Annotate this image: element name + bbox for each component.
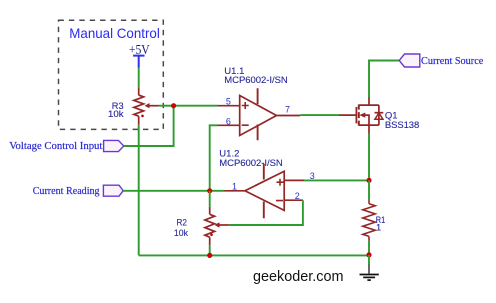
svg-text:MCP6002-I/SN: MCP6002-I/SN: [224, 75, 288, 86]
svg-text:geekoder.com: geekoder.com: [253, 269, 344, 285]
manual control box: [59, 20, 164, 129]
svg-text:2: 2: [295, 191, 300, 201]
wire node A to pin1: [210, 190, 225, 192]
svg-text:1: 1: [376, 222, 381, 232]
node ground junction: [366, 252, 371, 257]
svg-text:Voltage Control Input: Voltage Control Input: [9, 140, 102, 152]
wire pin2 jog down to R2 wiper: [229, 200, 303, 225]
power +5V: [129, 43, 150, 67]
node B junction: [366, 178, 371, 183]
svg-text:1: 1: [232, 181, 237, 191]
wire pin7 to gate: [300, 114, 339, 116]
wire bottom rail: [139, 254, 369, 256]
svg-text:Current Reading: Current Reading: [33, 185, 100, 197]
svg-text:R2: R2: [177, 217, 188, 227]
wire pin6 L to node A: [210, 125, 218, 191]
resistor R1: [363, 200, 385, 241]
svg-text:Current Source: Current Source: [421, 55, 483, 67]
wire R1 bottom to ground node: [368, 241, 370, 255]
wire node A to R2: [209, 191, 211, 207]
resistor R3 (trimmer 10k): [108, 88, 174, 125]
wire drain up to current source: [369, 61, 399, 98]
op-amp U1.1: [218, 66, 301, 140]
node wiper junction: [171, 103, 176, 108]
svg-text:Manual Control: Manual Control: [69, 25, 160, 41]
flag Current Source: [399, 54, 483, 67]
wire R2 bottom to rail: [209, 245, 211, 255]
wire Current Reading to node A: [123, 190, 210, 192]
svg-text:MCP6002-I/SN: MCP6002-I/SN: [219, 158, 283, 169]
node R2 bottom junction: [207, 253, 212, 258]
transistor Q1 BSS138: [339, 97, 419, 134]
wire VCI to wiper junction: [124, 106, 174, 146]
wire +5V to R3: [138, 68, 140, 89]
wire source down to node B: [368, 134, 370, 181]
node A junction: [207, 188, 212, 193]
flag Voltage Control Input: [9, 140, 124, 152]
wire wiper junction to pin5: [174, 105, 218, 107]
wire pin3 to source node: [304, 179, 369, 181]
resistor R2 (trimmer 10k): [174, 207, 229, 246]
svg-text:5: 5: [226, 97, 231, 107]
flag Current Reading: [33, 185, 124, 197]
svg-text:10k: 10k: [174, 228, 189, 238]
svg-text:BSS138: BSS138: [385, 120, 419, 131]
wire node B to R1: [368, 180, 370, 200]
wire R3 bottom down-left rail: [138, 125, 140, 256]
ground: [360, 255, 379, 280]
svg-text:10k: 10k: [108, 109, 124, 119]
svg-text:6: 6: [226, 116, 231, 126]
svg-text:7: 7: [285, 105, 290, 115]
op-amp U1.2: [219, 148, 315, 218]
